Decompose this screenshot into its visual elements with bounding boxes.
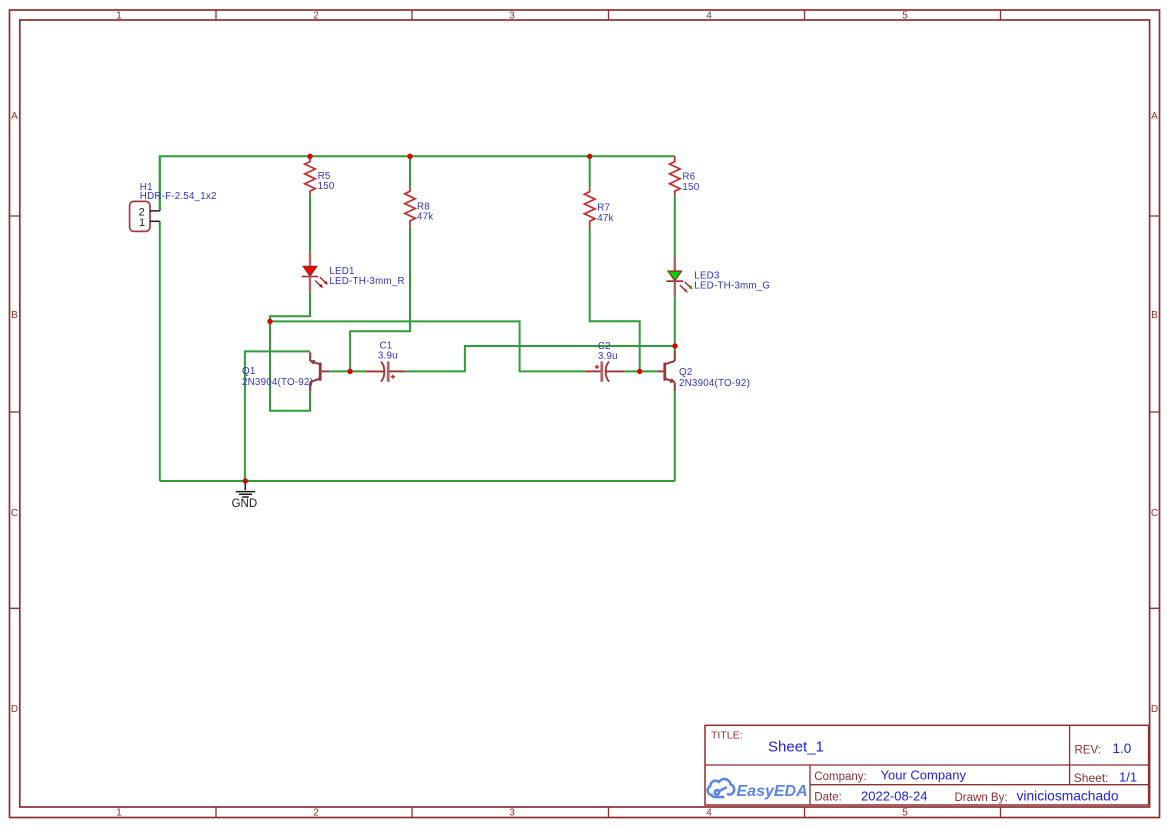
resistor R8 [405, 187, 434, 227]
title block row line 2 [810, 784, 1149, 786]
resistor R6 [670, 156, 700, 195]
svg-text:Drawn By:: Drawn By: [955, 792, 1008, 804]
svg-text:GND: GND [232, 498, 258, 510]
svg-text:2022-08-24: 2022-08-24 [861, 788, 928, 803]
wire Q1 emitter to ground rail [245, 351, 310, 481]
wire R8 top vertical [409, 156, 411, 186]
svg-text:47k: 47k [597, 213, 613, 224]
title block logo cell divider [809, 765, 811, 805]
svg-text:TITLE:: TITLE: [711, 730, 743, 742]
svg-text:HDR-F-2.54_1x2: HDR-F-2.54_1x2 [140, 191, 217, 202]
wire R8 bottom to Q1 base [350, 227, 410, 372]
LED LED1 [302, 253, 405, 291]
svg-text:Date:: Date: [814, 791, 842, 803]
svg-text:LED-TH-3mm_G: LED-TH-3mm_G [694, 280, 770, 291]
capacitor C2 [586, 341, 624, 382]
frame top ticks [216, 10, 1001, 20]
svg-text:1.0: 1.0 [1113, 741, 1132, 756]
wire R5 bottom to LED1 [309, 195, 311, 253]
EasyEDA logo cloud [708, 779, 735, 797]
svg-text:47k: 47k [417, 212, 433, 223]
svg-text:REV:: REV: [1075, 744, 1101, 756]
svg-text:B: B [1151, 310, 1158, 321]
frame bottom ticks [216, 807, 1001, 818]
pin 2 line [150, 210, 160, 212]
wire R7 top vertical [589, 156, 591, 187]
resistor R7 [584, 187, 613, 226]
svg-text:2N3904(TO-92): 2N3904(TO-92) [242, 377, 313, 388]
svg-text:3.9u: 3.9u [378, 351, 398, 362]
junction node ground rail [243, 478, 248, 483]
svg-text:3.9u: 3.9u [598, 351, 618, 362]
svg-text:C: C [11, 508, 18, 519]
svg-text:2N3904(TO-92): 2N3904(TO-92) [679, 378, 750, 389]
ground symbol GND [232, 481, 258, 510]
svg-text:1: 1 [116, 808, 122, 819]
svg-text:D: D [11, 704, 18, 715]
junction node Q2 collector / LED3 [672, 343, 677, 348]
wire H1 pin1 to ground rail [159, 221, 161, 481]
svg-text:C: C [1151, 508, 1158, 519]
junction node R7/rail [587, 154, 592, 159]
junction node Q2 base [637, 369, 642, 374]
wire H1 pin2 to rail vertical [159, 156, 161, 211]
svg-text:Q2: Q2 [679, 367, 692, 378]
svg-text:1: 1 [116, 11, 122, 22]
wire ground bottom rail [160, 480, 675, 482]
svg-text:2: 2 [313, 11, 319, 22]
svg-text:4: 4 [706, 808, 712, 819]
LED LED3 [667, 257, 771, 297]
svg-text:1/1: 1/1 [1119, 770, 1137, 785]
svg-text:5: 5 [902, 11, 908, 22]
svg-text:3: 3 [509, 11, 515, 22]
svg-text:LED-TH-3mm_R: LED-TH-3mm_R [329, 276, 404, 287]
junction node Q1 base [347, 369, 352, 374]
svg-text:B: B [11, 310, 18, 321]
svg-text:150: 150 [318, 181, 335, 192]
svg-text:5: 5 [902, 808, 908, 819]
svg-text:D: D [1151, 704, 1158, 715]
svg-text:150: 150 [682, 182, 699, 193]
wire LED1 cathode to node A [270, 291, 310, 322]
svg-text:1: 1 [139, 217, 145, 229]
svg-text:4: 4 [706, 11, 712, 22]
wire R7 bottom to Q2 base [590, 227, 640, 372]
svg-text:Company:: Company: [814, 771, 866, 783]
wire VCC top rail [160, 156, 675, 211]
svg-text:Your Company: Your Company [881, 768, 967, 783]
wire Q2 emitter down to ground rail [674, 391, 676, 481]
svg-text:Q1: Q1 [242, 366, 255, 377]
svg-text:A: A [1151, 111, 1158, 122]
svg-text:Sheet:: Sheet: [1074, 771, 1109, 785]
resistor R5 [305, 156, 335, 195]
wire R6 bottom to LED3 [674, 196, 676, 257]
junction node R8/rail [407, 154, 412, 159]
svg-text:viniciosmachado: viniciosmachado [1017, 788, 1119, 803]
svg-text:Sheet_1: Sheet_1 [768, 739, 824, 756]
wire LED3 cathode to Q2 collector node [674, 296, 676, 350]
wire node A down to Q1 collector [270, 321, 310, 410]
frame left ticks [10, 216, 20, 608]
svg-text:2: 2 [313, 808, 319, 819]
title block row line 1 [705, 764, 1149, 766]
wire node A horizontal to C2 branch [270, 321, 586, 371]
capacitor C1 [366, 341, 404, 382]
junction node A (LED1 cathode) [267, 319, 272, 324]
svg-text:3: 3 [509, 808, 515, 819]
svg-text:EasyEDA: EasyEDA [737, 783, 808, 800]
transistor Q1 [242, 352, 330, 391]
transistor Q2 [658, 351, 751, 391]
svg-text:A: A [11, 111, 18, 122]
frame right ticks [1150, 216, 1160, 608]
pin 1 line [150, 220, 160, 222]
wire Q1 base to C1 [330, 370, 366, 372]
title block rev column divider [1069, 725, 1071, 784]
connector H1 [130, 182, 217, 231]
wire C1 right to LED3 node [404, 346, 675, 371]
wire C2 right to Q2 base [624, 370, 657, 372]
title block outline [705, 725, 1149, 805]
junction node R5/rail [307, 154, 312, 159]
